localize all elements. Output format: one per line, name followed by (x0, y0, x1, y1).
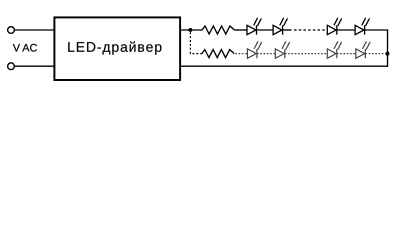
return wire from right bus to driver box (181, 65, 388, 67)
wire stub after VD2 (283, 29, 292, 31)
LED driver block (54, 17, 180, 80)
LED VD3 (string 1) (327, 17, 342, 35)
LED VD2 (string 1) (273, 17, 288, 35)
dashed continuation wire (omitted LEDs, string 1) (294, 29, 326, 31)
resistor R2 (string 2) (202, 50, 235, 58)
wire R1 to VD1 (235, 29, 248, 31)
LED VD1 (string 1) (247, 17, 262, 35)
label LED-драйвер (68, 41, 161, 54)
wire from bottom terminal to driver box (14, 65, 54, 67)
terminal top-left (8, 27, 15, 34)
dashed wire ghost LED 4 to node B (365, 53, 385, 55)
wire VD3 to VD4 (337, 29, 355, 31)
wire from top terminal to driver box (14, 29, 54, 31)
terminal bottom-left (8, 63, 15, 70)
ghost LED 3 (string 2) (327, 41, 342, 59)
label V AC (13, 44, 37, 52)
ghost LED 4 (string 2) (356, 41, 371, 59)
dashed wire ghost LED 2 to 3 (285, 53, 328, 55)
dashed wire ghost LED 3 to 4 (337, 53, 356, 55)
node B junction dot (386, 52, 390, 56)
wire from driver box to string 1 (181, 29, 203, 31)
ghost LED 2 (string 2) (275, 41, 290, 59)
right bus wire down (387, 29, 389, 66)
ghost LED 1 (string 2) (247, 41, 262, 59)
dashed branch wire from node A down to string 2 (190, 32, 201, 53)
resistor R1 (string 1) (202, 26, 235, 34)
dashed wire ghost LED 1 to 2 (257, 53, 275, 55)
wire VD1 to VD2 (257, 29, 274, 31)
wire VD4 to right bus (365, 29, 389, 31)
LED VD4 (string 1) (355, 17, 370, 35)
dashed wire R2 to ghost LED 1 (235, 53, 247, 55)
node A junction dot (188, 28, 192, 32)
